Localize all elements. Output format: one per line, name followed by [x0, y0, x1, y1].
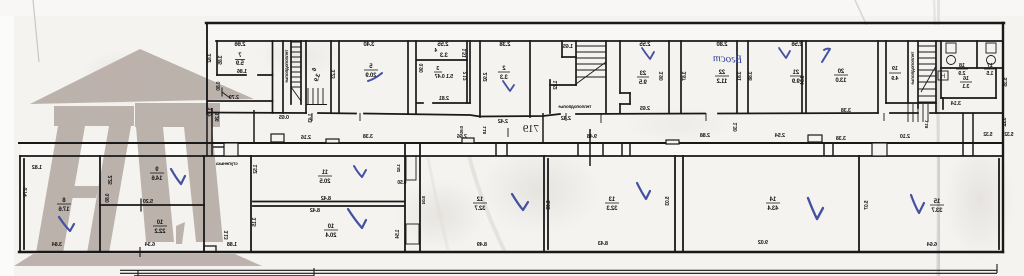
svg-text:15: 15 — [933, 199, 940, 205]
svg-text:9.9: 9.9 — [791, 79, 800, 85]
svg-text:теплоподполье: теплоподполье — [558, 104, 591, 109]
svg-text:2.12: 2.12 — [463, 72, 469, 81]
svg-text:8.43: 8.43 — [598, 241, 608, 247]
svg-text:2.56: 2.56 — [791, 42, 803, 48]
svg-text:2.42: 2.42 — [561, 116, 571, 122]
svg-text:H: H — [941, 74, 945, 80]
svg-text:14.6: 14.6 — [151, 176, 163, 182]
svg-text:3.85: 3.85 — [218, 56, 224, 65]
svg-text:6.64: 6.64 — [926, 242, 937, 248]
svg-text:5.03: 5.03 — [665, 197, 671, 206]
svg-text:3.3: 3.3 — [499, 75, 508, 81]
svg-text:1.18: 1.18 — [482, 126, 487, 135]
svg-text:12: 12 — [476, 197, 483, 203]
svg-text:5.9: 5.9 — [235, 61, 244, 67]
svg-text:2.16: 2.16 — [301, 135, 311, 141]
svg-text:5.1 0.47: 5.1 0.47 — [435, 74, 453, 80]
svg-text:3: 3 — [436, 66, 439, 72]
svg-text:2.92: 2.92 — [483, 73, 489, 82]
svg-text:9.02: 9.02 — [758, 240, 768, 246]
svg-text:43.4: 43.4 — [767, 206, 779, 212]
svg-text:3.1: 3.1 — [962, 84, 969, 90]
svg-text:32.3: 32.3 — [606, 206, 618, 212]
svg-text:4: 4 — [434, 48, 437, 54]
svg-text:2.10: 2.10 — [900, 134, 910, 140]
svg-text:2.66: 2.66 — [457, 134, 467, 140]
svg-text:1.5: 1.5 — [986, 71, 993, 77]
svg-text:0.80: 0.80 — [105, 194, 111, 203]
svg-text:1.51: 1.51 — [462, 49, 468, 58]
svg-text:3.3: 3.3 — [439, 53, 448, 59]
svg-text:33.7: 33.7 — [931, 208, 943, 214]
svg-text:23: 23 — [639, 71, 646, 77]
svg-text:0.74: 0.74 — [23, 188, 29, 197]
svg-text:2.54: 2.54 — [774, 133, 785, 139]
svg-text:8.42: 8.42 — [321, 196, 331, 202]
svg-text:1.22: 1.22 — [553, 81, 559, 90]
svg-text:3.38: 3.38 — [363, 134, 373, 140]
svg-text:2.88: 2.88 — [700, 133, 710, 139]
svg-text:0.90: 0.90 — [419, 64, 425, 73]
svg-text:3.84: 3.84 — [51, 242, 62, 248]
svg-text:Вгост: Вгост — [712, 52, 742, 66]
svg-text:3.40: 3.40 — [363, 42, 375, 48]
svg-text:4.9: 4.9 — [891, 76, 898, 82]
svg-text:2.65: 2.65 — [640, 106, 650, 112]
svg-text:1.52: 1.52 — [396, 164, 401, 173]
svg-text:14: 14 — [769, 197, 776, 203]
svg-text:19: 19 — [892, 66, 898, 72]
svg-text:0.65: 0.65 — [279, 115, 289, 121]
svg-text:2.55: 2.55 — [437, 42, 449, 48]
svg-text:3.23: 3.23 — [331, 70, 337, 79]
svg-text:3.38: 3.38 — [836, 136, 846, 142]
svg-text:3.87: 3.87 — [682, 72, 688, 81]
svg-text:20: 20 — [837, 69, 844, 75]
svg-text:9.48: 9.48 — [587, 134, 597, 140]
svg-text:2.25: 2.25 — [108, 176, 114, 185]
svg-text:10: 10 — [156, 220, 163, 226]
svg-text:3.22: 3.22 — [208, 108, 214, 117]
svg-text:2.38: 2.38 — [499, 42, 511, 48]
svg-text:17: 17 — [987, 63, 993, 69]
svg-text:2.80: 2.80 — [716, 42, 728, 48]
svg-text:1.82: 1.82 — [32, 165, 42, 171]
svg-text:9.5: 9.5 — [638, 80, 647, 86]
svg-text:теплоподполье: теплоподполье — [910, 52, 915, 85]
svg-text:2.81: 2.81 — [439, 96, 449, 102]
svg-text:11.2: 11.2 — [716, 79, 727, 85]
svg-text:5.07: 5.07 — [864, 201, 870, 210]
svg-text:20.5: 20.5 — [319, 179, 331, 185]
svg-text:2.42: 2.42 — [498, 119, 508, 125]
svg-text:22.2: 22.2 — [154, 229, 166, 235]
svg-text:21: 21 — [792, 70, 799, 76]
svg-text:3.82: 3.82 — [207, 54, 213, 63]
svg-text:16: 16 — [963, 76, 969, 82]
svg-text:22: 22 — [718, 70, 725, 76]
svg-text:13.0: 13.0 — [835, 78, 847, 84]
svg-text:5.32: 5.32 — [983, 132, 992, 138]
svg-text:3.81: 3.81 — [737, 72, 743, 81]
svg-text:2.79: 2.79 — [229, 95, 239, 101]
svg-text:3.13: 3.13 — [224, 231, 230, 240]
svg-text:18: 18 — [959, 63, 965, 69]
svg-text:1.65: 1.65 — [563, 44, 573, 50]
svg-text:32.7: 32.7 — [474, 206, 486, 212]
svg-text:1.86: 1.86 — [237, 69, 247, 75]
svg-text:5.35: 5.35 — [1003, 78, 1009, 87]
svg-text:3.84: 3.84 — [800, 76, 806, 85]
svg-text:1.88: 1.88 — [227, 242, 237, 248]
svg-text:теплоподполье: теплоподполье — [284, 50, 289, 83]
svg-text:1.18: 1.18 — [924, 120, 929, 129]
svg-text:5.32: 5.32 — [1004, 132, 1013, 138]
svg-text:3.26: 3.26 — [215, 113, 221, 122]
svg-text:3.14: 3.14 — [950, 101, 961, 107]
svg-text:5.20: 5.20 — [143, 199, 153, 205]
svg-text:10: 10 — [327, 224, 334, 230]
svg-text:0.50: 0.50 — [397, 180, 406, 186]
svg-text:8.04: 8.04 — [421, 196, 426, 205]
svg-text:1.30: 1.30 — [733, 123, 739, 132]
svg-text:1.43: 1.43 — [308, 114, 314, 123]
svg-text:11: 11 — [321, 170, 328, 176]
svg-text:3.15: 3.15 — [252, 218, 258, 227]
svg-text:8.49: 8.49 — [477, 242, 487, 248]
svg-text:17.6: 17.6 — [58, 207, 70, 213]
svg-text:3.38: 3.38 — [841, 108, 851, 114]
svg-text:13: 13 — [608, 197, 615, 203]
svg-text:3.22: 3.22 — [1002, 118, 1008, 127]
svg-text:20.4: 20.4 — [325, 233, 337, 239]
svg-text:2.66: 2.66 — [234, 42, 246, 48]
svg-text:2.55: 2.55 — [639, 42, 651, 48]
svg-text:3.88: 3.88 — [748, 72, 754, 81]
svg-text:3.90: 3.90 — [659, 72, 665, 81]
svg-text:ступенька: ступенька — [216, 161, 238, 166]
svg-text:719: 719 — [522, 123, 539, 135]
svg-text:1.54: 1.54 — [395, 230, 401, 239]
svg-text:0.80: 0.80 — [216, 82, 222, 91]
svg-text:5.03: 5.03 — [546, 201, 552, 210]
svg-text:6.34: 6.34 — [144, 242, 155, 248]
svg-text:1.52: 1.52 — [253, 165, 259, 174]
svg-text:8.42: 8.42 — [310, 208, 320, 214]
